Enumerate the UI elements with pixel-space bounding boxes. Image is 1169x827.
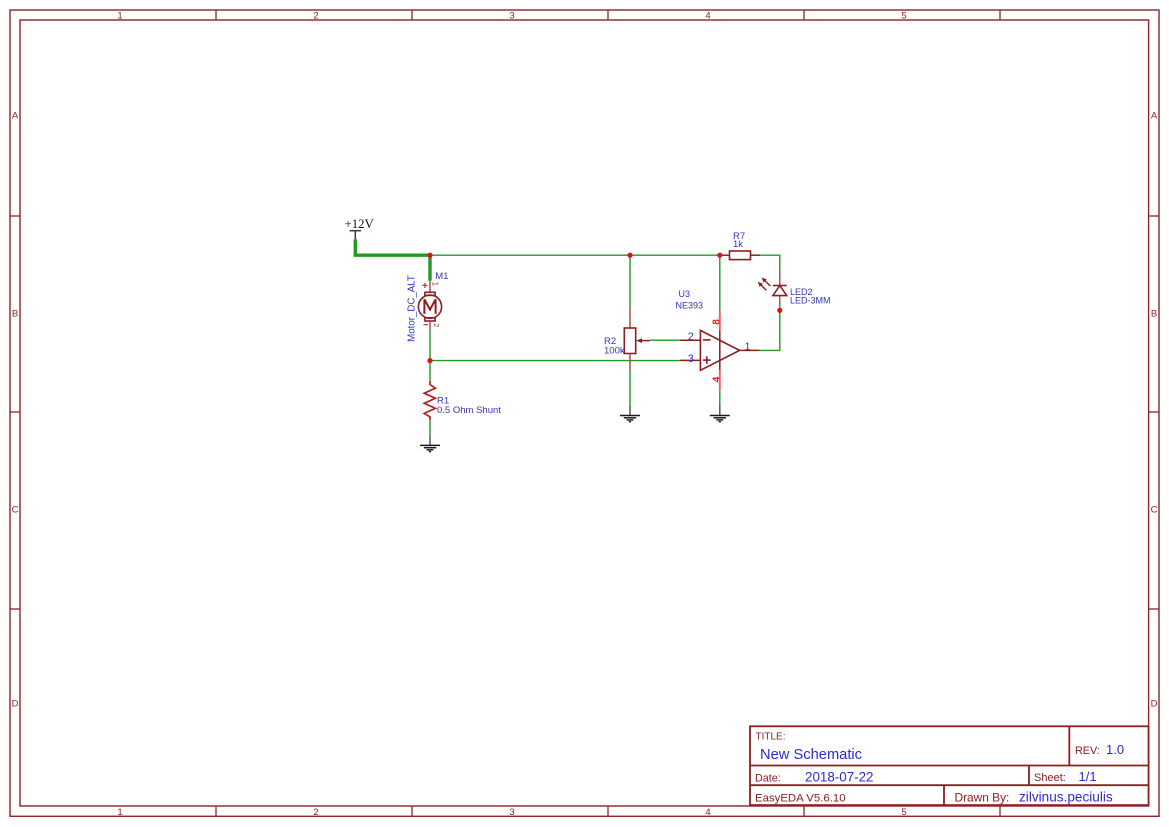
op-amp U1 pin 2 — [680, 339, 700, 341]
wire top rail — [430, 254, 720, 256]
svg-text:3: 3 — [688, 353, 694, 365]
svg-text:M1: M1 — [435, 271, 448, 282]
motor M1 pin1 plus mark — [422, 283, 427, 288]
svg-text:100k: 100k — [604, 346, 625, 357]
svg-text:2: 2 — [313, 807, 318, 818]
svg-text:Drawn By:: Drawn By: — [955, 791, 1010, 805]
svg-text:C: C — [1151, 505, 1158, 516]
svg-text:4: 4 — [705, 11, 710, 22]
wire thick from +12V to node A — [355, 239, 430, 255]
op-amp U1 minus mark — [703, 339, 711, 341]
motor M1 pin 2 — [429, 321, 431, 330]
svg-text:D: D — [12, 699, 19, 710]
svg-text:zilvinus.peciulis: zilvinus.peciulis — [1019, 790, 1113, 805]
svg-text:1: 1 — [117, 807, 122, 818]
svg-text:5: 5 — [901, 807, 906, 818]
power flag +12V — [350, 231, 361, 240]
junction node A — [427, 253, 432, 258]
resistor R1 — [424, 381, 435, 420]
resistor R7 pin right — [751, 254, 761, 256]
wire op-amp output to LED — [760, 310, 780, 350]
wire motor to node B — [429, 330, 431, 360]
svg-text:4: 4 — [711, 376, 722, 382]
resistor R7 pin left — [720, 254, 730, 256]
svg-text:Date:: Date: — [755, 773, 781, 785]
svg-text:A: A — [1151, 111, 1158, 122]
LED2 emission arrow 1 — [762, 278, 771, 287]
svg-text:TITLE:: TITLE: — [756, 732, 786, 743]
junction node B — [427, 358, 432, 363]
wire R1 to ground — [429, 420, 431, 436]
wire R7 to LED corner — [760, 255, 780, 270]
ground GND2 — [620, 406, 640, 422]
frame column numbers bottom — [117, 807, 906, 818]
op-amp U1 pin 8 — [719, 311, 721, 331]
potentiometer R2 wiper arrow — [641, 340, 650, 342]
svg-text:1/1: 1/1 — [1079, 769, 1097, 784]
svg-text:5: 5 — [901, 11, 906, 22]
svg-text:B: B — [12, 309, 18, 320]
svg-text:A: A — [12, 111, 19, 122]
potentiometer R2 body — [624, 328, 635, 354]
wire op-amp pin4 to ground — [719, 390, 721, 405]
title block row divider 1 — [750, 765, 1149, 767]
junction node C — [777, 308, 782, 313]
junction node U3 pin8 — [717, 253, 722, 258]
ground GND3 — [710, 406, 730, 422]
svg-text:B: B — [1151, 309, 1157, 320]
LED2 pin top — [779, 271, 781, 286]
motor M1 pin 1 — [429, 281, 431, 293]
title block sheet divider — [1028, 766, 1030, 786]
svg-text:EasyEDA V5.6.10: EasyEDA V5.6.10 — [755, 793, 846, 805]
svg-text:REV:: REV: — [1075, 745, 1100, 757]
LED2 emission arrow 2 — [758, 282, 767, 291]
frame column numbers top — [117, 11, 906, 22]
frame ticks left — [10, 216, 20, 609]
svg-text:2: 2 — [688, 331, 694, 343]
potentiometer R2 pin2 — [629, 354, 631, 371]
svg-text:3: 3 — [509, 11, 514, 22]
svg-text:Motor_DC_ALT: Motor_DC_ALT — [407, 275, 418, 342]
wire node B down to R1 — [429, 361, 431, 381]
frame row letters left — [12, 111, 19, 710]
wire LED2 to node C — [779, 305, 781, 310]
LED2 pin bottom — [779, 296, 781, 305]
frame ticks right — [1149, 216, 1159, 609]
svg-text:D: D — [1151, 699, 1158, 710]
svg-text:U3: U3 — [679, 289, 691, 299]
potentiometer R2 pin1 — [629, 308, 631, 328]
op-amp U1 pin 4 — [719, 370, 721, 390]
wire rail to op-amp pin8 — [719, 255, 721, 311]
svg-text:C: C — [12, 505, 19, 516]
title block row divider 2 — [750, 784, 1149, 786]
title block drawnby divider — [943, 785, 945, 805]
wire rail to R2 — [629, 255, 631, 308]
junction node R2 top — [627, 253, 632, 258]
svg-text:2: 2 — [313, 11, 318, 22]
svg-text:2018-07-22: 2018-07-22 — [805, 770, 874, 785]
LED2 cathode bar — [773, 285, 787, 287]
svg-text:NE393: NE393 — [676, 301, 704, 311]
svg-text:2: 2 — [432, 323, 441, 327]
svg-text:LED-3MM: LED-3MM — [790, 296, 831, 306]
op-amp U1 pin 3 — [680, 359, 700, 361]
svg-text:Sheet:: Sheet: — [1034, 772, 1066, 784]
wire R2 wiper to op-amp pin2 — [650, 339, 680, 341]
resistor R7 body — [730, 251, 751, 260]
svg-text:1: 1 — [117, 11, 122, 22]
svg-text:1k: 1k — [733, 239, 743, 250]
svg-text:0.5 Ohm Shunt: 0.5 Ohm Shunt — [437, 405, 501, 416]
svg-text:1.0: 1.0 — [1106, 742, 1124, 757]
frame row letters right — [1151, 111, 1158, 710]
op-amp U1 plus mark — [703, 356, 711, 364]
LED2 triangle — [773, 286, 787, 296]
motor M1 pin2 minus mark — [423, 324, 428, 326]
svg-text:+12V: +12V — [345, 217, 375, 231]
motor M1 body — [418, 292, 441, 321]
op-amp U1 body — [700, 330, 739, 370]
svg-text:New Schematic: New Schematic — [760, 747, 862, 763]
wire thick node A to motor — [428, 254, 431, 281]
svg-text:3: 3 — [509, 807, 514, 818]
title block rev divider — [1068, 726, 1070, 765]
op-amp U1 pin 1 — [740, 349, 760, 351]
svg-text:1: 1 — [745, 341, 751, 353]
ground GND1 — [420, 436, 440, 452]
frame ticks bottom — [216, 806, 1000, 816]
title block border — [750, 726, 1149, 805]
svg-text:1: 1 — [431, 282, 440, 287]
svg-text:4: 4 — [705, 807, 710, 818]
op-amp U1 internal rail — [719, 330, 721, 370]
wire node B to op-amp pin3 — [430, 360, 680, 362]
frame ticks top — [216, 10, 1000, 20]
svg-text:8: 8 — [711, 319, 722, 325]
wire R2 to ground — [629, 370, 631, 406]
